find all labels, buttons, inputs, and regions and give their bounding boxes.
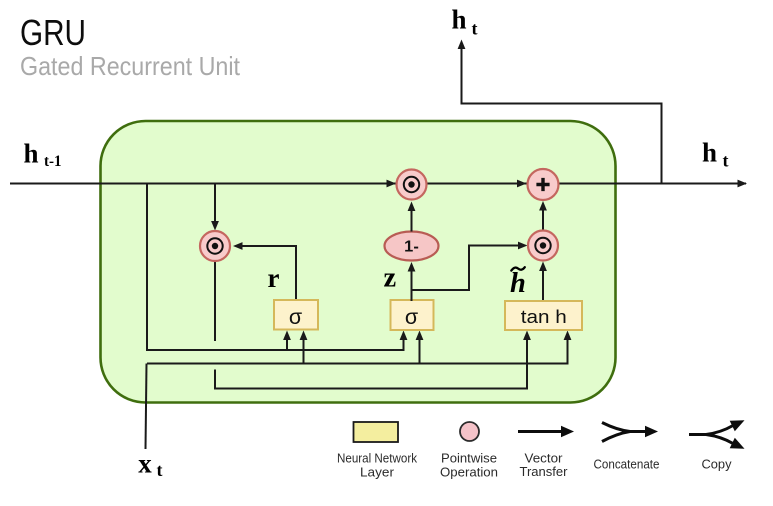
wire: sigma2 up into 1- ellipse [411,268,413,302]
svg-text:h: h [510,268,526,299]
svg-text:z: z [384,262,397,293]
arrowhead line A end into sigma2 [400,331,408,341]
wire: stub line B into sigma1 [303,335,305,364]
arrowhead line B end into tanh [564,331,572,341]
wire: z branch right into update multiply circle [412,246,522,291]
svg-text:Pointwise: Pointwise [441,451,497,466]
wire: stub line B into sigma2 [419,335,421,364]
svg-text:1-: 1- [404,239,419,256]
wire: line A to sigma gates [147,335,404,350]
svg-text:h: h [24,139,39,169]
label h-tilde [510,267,526,299]
arrowhead into plus circle [517,180,527,188]
arrowhead into main multiply circle [408,202,416,212]
wire: reset product down (crossing gap) [214,261,216,341]
wire: sigma1 output up-left into reset circle [241,246,297,301]
svg-text:Transfer: Transfer [520,464,569,479]
1- ellipse [385,232,439,261]
svg-text:t: t [157,460,163,480]
arrowhead into update circle from tanh [539,262,547,272]
legend vector transfer arrow [518,426,574,479]
svg-text:h: h [452,5,467,35]
arrowhead into main multiply circle [387,180,397,188]
plus circle [528,169,559,200]
svg-text:tan h: tan h [521,307,567,327]
svg-text:σ: σ [405,305,418,329]
wire: update multiply circle up into plus [542,207,544,231]
tanh box [505,301,582,330]
wire: 1- ellipse up into main multiply circle [411,207,413,232]
svg-text:Neural Network: Neural Network [337,451,417,466]
arrowhead into plus circle from below [539,201,547,211]
arrowhead left into reset circle [233,242,243,250]
legend neural network layer swatch [337,422,417,480]
arrowhead down into reset circle [211,221,219,231]
svg-text:σ: σ [289,305,302,329]
wire: stub line A into sigma1 [286,335,288,350]
sigma2 box [391,300,434,330]
wire: main h line [10,183,746,185]
svg-text:t-1: t-1 [44,153,62,170]
wire: tanh up into update multiply circle [542,267,544,302]
svg-text:GRU: GRU [20,12,86,53]
svg-text:t: t [723,151,729,171]
svg-text:Copy: Copy [702,457,732,472]
arrowhead stub B into sigma2 [416,331,424,341]
svg-text:t: t [472,19,478,39]
arrowhead right into update circle [518,242,528,250]
legend concatenate symbol [594,423,660,472]
legend pointwise operation swatch [440,422,498,480]
GRU cell body green rounded box [101,121,616,403]
arrowhead line C into tanh [523,331,531,341]
arrowhead into 1- ellipse [408,262,416,272]
svg-text:Layer: Layer [360,465,395,480]
wire: x_t input line [146,364,147,450]
arrowhead stub B into sigma1 [300,331,308,341]
wire: main line down into reset circle [214,184,216,222]
legend copy symbol [689,420,745,471]
pointwise multiply circle reset gate [200,231,230,261]
svg-text:r: r [268,263,280,293]
svg-text:Operation: Operation [440,465,498,480]
arrowhead main line right end [738,180,748,188]
arrowhead h_t top [458,40,466,50]
svg-text:Gated Recurrent Unit: Gated Recurrent Unit [20,51,241,81]
wire: h_t output up path [462,49,662,184]
wire: line C reset product to tanh [215,335,527,389]
svg-text:x: x [138,449,152,479]
wire: line B x_t distribution [147,335,568,364]
sigma1 box [274,300,318,330]
svg-text:Concatenate: Concatenate [594,457,660,472]
arrowhead stub A into sigma1 [283,331,291,341]
pointwise multiply circle main line [397,170,427,200]
wire: h branch down at x=147 [146,184,148,352]
svg-text:h: h [702,138,717,168]
pointwise multiply circle update gate [528,231,558,261]
